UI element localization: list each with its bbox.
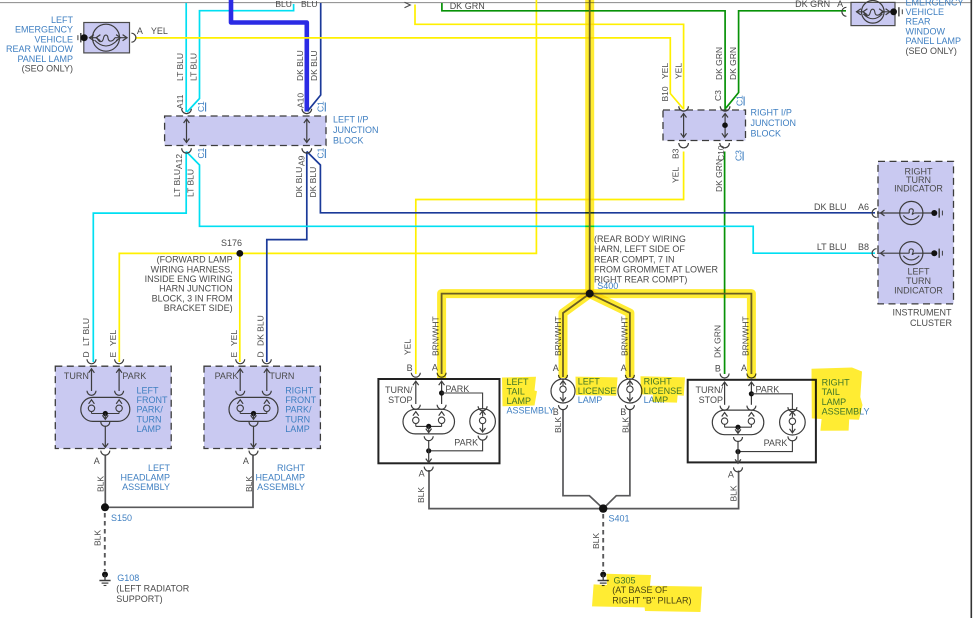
lamp symbol E2 right emergency vehicle rear window panel lamp [862,1,885,24]
highlighter blob over LEFT LICENSE text [576,377,618,396]
right I/P junction block pin B3/C3 connector [679,143,689,148]
svg-text:SUPPORT): SUPPORT) [116,594,162,604]
wire LT BLU from left I/P A12 to instrument cluster B8 [186,152,875,254]
left front park/turn lamp bulb (stadium) [81,397,130,421]
page top border [0,2,972,4]
ground G108 [102,572,108,578]
connector pin A of left tail lamp [424,467,433,472]
svg-text:C10: C10 [716,145,726,161]
wire BLK right license lamp B to S401 [603,409,630,509]
svg-text:LEFT: LEFT [51,15,74,25]
box: RIGHT TAIL LAMP ASSEMBLY [688,380,816,463]
highlighter band: S400 to left license lamp [563,294,590,378]
highlighter blob over RIGHT LICENSE text [641,376,686,402]
svg-text:BLK: BLK [93,530,103,546]
wire YEL from off-page arrow into right I/P B10 (straight drop) [415,5,684,110]
svg-text:(REAR BODY WIRING: (REAR BODY WIRING [594,234,686,244]
svg-text:DK GRN: DK GRN [450,1,485,11]
svg-text:BLK: BLK [95,476,105,492]
left I/P junction block pin A9/C1 connector [302,148,312,153]
svg-text:BRACKET SIDE): BRACKET SIDE) [164,303,233,313]
wire DK GRN from right I/P C10 to right tail lamp B [724,152,726,375]
svg-text:A: A [837,0,843,9]
svg-text:A: A [741,363,747,373]
ground G305 [600,572,606,578]
pigtail ground right of lamp E2 [890,8,897,15]
svg-text:YEL: YEL [229,330,239,346]
svg-text:DK BLU: DK BLU [308,167,318,198]
svg-text:BLK: BLK [728,485,738,501]
splice S400 [586,290,594,298]
connector pin A of left front park/turn lamp [101,451,110,456]
svg-text:REAR WINDOW: REAR WINDOW [6,44,74,54]
svg-text:BLK: BLK [553,417,563,433]
svg-text:LEFT I/P: LEFT I/P [333,115,368,125]
left I/P junction block pin A12/C1 connector [182,148,192,153]
svg-text:LT BLU: LT BLU [172,169,182,197]
connector pins of left front park/turn lamp [87,359,96,364]
svg-text:LAMP: LAMP [285,424,310,434]
svg-text:E: E [108,352,118,358]
connector pin B of left license lamp [559,405,568,410]
indicator lamp RIGHT TURN INDICATOR [872,209,876,218]
svg-text:DK BLU: DK BLU [294,167,304,198]
svg-text:PARK: PARK [755,384,779,394]
highlighter blob over RIGHT TAIL LAMP ASSEMBLY text [812,368,863,431]
svg-text:YEL: YEL [108,330,118,346]
svg-text:A: A [419,469,425,479]
svg-text:DK BLU: DK BLU [309,50,319,81]
junction dot inside right I/P block on C3 path [722,122,728,128]
lamp box: (RIGHT) EMERGENCY VEHICLE REAR WINDOW PANEL LAMP [851,2,895,25]
svg-text:A: A [137,26,143,36]
svg-text:YEL: YEL [673,63,683,79]
svg-text:S401: S401 [609,514,630,524]
svg-text:HEADLAMP: HEADLAMP [255,472,305,482]
svg-text:BLOCK, 3 IN FROM: BLOCK, 3 IN FROM [152,293,233,303]
wire DK BLU thin from top into A10 [307,3,320,111]
svg-text:B: B [715,363,721,373]
svg-text:C3: C3 [733,150,743,161]
svg-text:PARK/: PARK/ [285,405,312,415]
park return line and junction dot of left tail lamp [429,440,483,451]
wire LT BLU from left I/P A12 to left front lamp D [93,152,186,363]
right I/P junction block internal path C3-C10 (double arrow) [724,115,726,137]
junction dot and PARK branch inside left tail lamp [439,390,444,395]
svg-text:C1: C1 [316,147,326,158]
svg-text:LT BLU: LT BLU [189,53,199,81]
svg-text:BLK: BLK [621,417,631,433]
wire DK BLU from left I/P A9 to instrument cluster A6 [307,152,875,213]
lamp left license lamp [559,375,568,380]
wire DK BLU from left I/P A9 to right front lamp D [267,152,307,363]
svg-text:C1: C1 [196,101,206,112]
wire BRN/WHT core from top to S400 [589,0,591,294]
svg-text:FROM GROMMET AT LOWER: FROM GROMMET AT LOWER [594,264,719,274]
svg-text:PARK: PARK [122,371,146,381]
wire BLK dashed S150 to G108 [104,513,106,571]
svg-text:ASSEMBLY: ASSEMBLY [122,482,170,492]
park bulb of right tail lamp [780,409,806,435]
svg-text:FRONT: FRONT [285,395,316,405]
wire YEL from right I/P B3 to left tail lamp B [416,152,684,375]
svg-text:(FORWARD LAMP: (FORWARD LAMP [157,255,233,265]
svg-text:B8: B8 [858,242,869,252]
svg-text:LT BLU: LT BLU [81,318,91,346]
page right border [970,0,972,618]
svg-text:WINDOW: WINDOW [906,26,946,36]
highlighter blob over LEFT TAIL LAMP text [502,377,537,407]
svg-text:D: D [256,351,266,357]
box: LEFT FRONT PARK/TURN LAMP (LEFT HEADLAMP ASSEMBLY) [55,366,171,448]
svg-text:LT BLU: LT BLU [817,242,847,252]
wire BRN/WHT core S400 horizontal to tail lamp A pins [442,294,752,374]
left I/P junction block internal path A11-A12 (double arrow) [186,120,188,142]
svg-text:TURN: TURN [285,414,310,424]
left I/P junction block internal path A10-A9 (double arrow) [306,120,308,142]
svg-text:BLK: BLK [416,487,426,503]
wire BLK right tail lamp A to S401 [603,471,738,509]
connector pin A of right tail lamp [734,467,743,472]
svg-text:DK GRN: DK GRN [795,0,830,9]
svg-text:TURN: TURN [269,371,294,381]
svg-text:LAMP: LAMP [578,395,603,405]
svg-text:C1: C1 [734,95,744,106]
svg-text:YEL: YEL [151,26,168,36]
highlighter band: S400 to right license lamp [590,294,630,378]
connector pins B and A of left tail lamp [411,373,420,378]
svg-text:YEL: YEL [671,167,681,183]
wire BLK left tail lamp A to S401 [429,470,603,509]
wire BLK left front lamp A to S150 to right front lamp A [105,455,253,508]
splice S150 [101,503,109,511]
svg-text:A9: A9 [297,155,307,166]
svg-text:DK BLU: DK BLU [295,50,305,81]
svg-text:C1: C1 [196,147,206,158]
svg-text:D: D [81,351,91,357]
svg-text:(SEO ONLY): (SEO ONLY) [22,64,73,74]
box: INSTRUMENT CLUSTER [878,161,954,304]
svg-text:VEHICLE: VEHICLE [906,7,945,17]
left I/P junction block pin A11/C1 connector [182,109,192,114]
svg-text:B3: B3 [671,148,681,159]
wire BLK dashed S401 to G305 [602,514,604,571]
svg-text:DK GRN: DK GRN [714,159,724,192]
right I/P junction block internal path B10-B3 (double arrow) [683,115,685,137]
svg-text:A: A [94,456,100,466]
svg-text:REAR: REAR [906,17,932,27]
svg-text:TURN: TURN [137,414,162,424]
svg-text:(SEO ONLY): (SEO ONLY) [906,46,957,56]
svg-text:ASSEMBLY: ASSEMBLY [257,482,305,492]
turn/stop bulb (stadium) of left tail lamp [403,409,455,434]
wire YEL branch S176 down to right front lamp E [239,253,241,362]
svg-text:DK GRN: DK GRN [714,47,724,80]
svg-text:A: A [243,456,249,466]
junction block: RIGHT I/P JUNCTION BLOCK [663,110,746,141]
wire LT BLU from top into A11 (straight) [185,3,187,112]
left I/P junction block pin A10/C1 connector [302,109,312,114]
svg-text:A12: A12 [174,154,184,169]
svg-text:RIGHT: RIGHT [277,463,306,473]
connector pins B and A of right tail lamp [720,374,729,379]
right I/P junction block pin B10/C1 connector [679,106,689,111]
lamp box: LEFT EMERGENCY VEHICLE REAR WINDOW PANEL LAMP [84,23,130,53]
svg-text:B: B [620,407,626,417]
svg-text:TURN: TURN [64,371,89,381]
wire BLK left license lamp B to S401 [563,409,603,509]
svg-text:VEHICLE: VEHICLE [34,34,73,44]
svg-text:HEADLAMP: HEADLAMP [120,472,170,482]
svg-text:PARK: PARK [215,371,239,381]
junction block: LEFT I/P JUNCTION BLOCK [165,116,326,146]
svg-text:INDICATOR: INDICATOR [894,286,943,296]
lamp right license lamp [625,375,634,380]
svg-text:DK BLU: DK BLU [814,202,847,212]
svg-text:S150: S150 [111,513,132,523]
connector pin A of lamp E2 [842,7,846,16]
svg-text:REAR COMPT, 7 IN: REAR COMPT, 7 IN [594,254,675,264]
park bulb of left tail lamp [470,409,496,435]
right I/P junction block pin C10/C3 connector [720,143,730,148]
splice S176 [236,250,243,257]
svg-text:C1: C1 [316,101,326,112]
svg-text:LEFT: LEFT [137,385,160,395]
svg-text:BLU: BLU [301,0,318,9]
svg-text:YEL: YEL [403,339,413,355]
svg-text:A: A [728,469,734,479]
svg-text:PARK: PARK [454,437,478,447]
svg-text:JUNCTION: JUNCTION [751,118,797,128]
svg-text:B: B [553,407,559,417]
svg-text:A10: A10 [295,93,305,108]
svg-text:CLUSTER: CLUSTER [910,318,953,328]
svg-text:B: B [407,363,413,373]
off-page arrow for YEL wire [405,2,411,8]
svg-text:S176: S176 [221,238,242,248]
highlighter blob over G305 note [592,574,702,612]
connector pins of right front park/turn lamp [236,359,245,364]
svg-text:STOP: STOP [388,395,412,405]
svg-text:HARN, LEFT SIDE OF: HARN, LEFT SIDE OF [594,244,685,254]
svg-text:C3: C3 [713,90,723,101]
connector pin B of right license lamp [625,405,634,410]
svg-text:INDICATOR: INDICATOR [894,183,943,193]
svg-text:A6: A6 [858,202,869,212]
svg-text:INSIDE ENG WIRING: INSIDE ENG WIRING [145,274,233,284]
svg-text:LT BLU: LT BLU [186,169,196,197]
right front park/turn lamp internal circuit [239,370,241,392]
svg-text:DK BLU: DK BLU [256,315,266,346]
wire BRN/WHT core S400 to right license lamp A [590,294,630,377]
lamp symbol E1 left emergency vehicle rear window panel lamp [93,24,120,51]
svg-text:PANEL LAMP: PANEL LAMP [17,54,73,64]
box: LEFT TAIL LAMP ASSEMBLY [378,379,499,463]
highlighter band: S400 horizontal run and tail lamp drops [442,294,752,379]
wire BRN/WHT core S400 to left license lamp A [563,294,590,377]
svg-text:INSTRUMENT: INSTRUMENT [893,307,952,317]
svg-text:RIGHT I/P: RIGHT I/P [751,108,792,118]
box: RIGHT FRONT PARK/TURN LAMP (RIGHT HEADLAMP ASSEMBLY) [204,366,320,448]
svg-text:G108: G108 [117,573,139,583]
connector pin A of lamp E1 [131,33,136,42]
right I/P junction block pin C3/C1 connector [720,106,730,111]
svg-text:A: A [553,363,559,373]
right front park/turn lamp bulb (stadium) [229,397,278,421]
wire YEL from left emergency lamp into right I/P B10 (diagonal) [135,38,683,109]
left front park/turn lamp internal circuit [91,370,93,392]
left tail lamp internal circuit [415,382,417,404]
svg-text:PARK: PARK [445,384,469,394]
wire DK BLU thick from top into A10 [231,0,307,112]
svg-text:BLOCK: BLOCK [751,129,782,139]
svg-text:PARK: PARK [764,438,788,448]
svg-text:E: E [229,352,239,358]
svg-text:BLU: BLU [275,0,292,9]
svg-text:A: A [432,363,438,373]
svg-text:FRONT: FRONT [137,395,168,405]
pigtail ground left of lamp E1 [77,35,79,40]
svg-text:DK GRN: DK GRN [728,47,738,80]
junction dot and PARK branch inside right tail lamp [749,391,754,396]
svg-text:A11: A11 [175,94,185,109]
svg-text:JUNCTION: JUNCTION [333,125,379,135]
svg-text:TURN/: TURN/ [696,385,724,395]
svg-text:BLOCK: BLOCK [333,136,364,146]
svg-text:WIRING HARNESS,: WIRING HARNESS, [151,264,233,274]
wire DK GRN from top into right I/P C3 (straight) [442,3,725,110]
svg-text:TURN: TURN [906,276,931,286]
svg-text:B10: B10 [660,86,670,101]
splice S401 [599,504,607,512]
highlighter band: BRN/WHT wire from top to S400 [585,0,594,294]
park return line and junction dot of right tail lamp [738,440,792,451]
svg-text:BLK: BLK [244,476,254,492]
svg-text:EMERGENCY: EMERGENCY [15,25,73,35]
svg-text:DK GRN: DK GRN [712,325,722,358]
wire LT BLU from top (bend at x293.6) into A11 [187,4,294,112]
indicator lamp LEFT TURN INDICATOR [872,249,877,258]
svg-text:RIGHT: RIGHT [285,385,314,395]
svg-text:LT BLU: LT BLU [175,53,185,81]
svg-text:PARK/: PARK/ [137,405,164,415]
svg-text:LEFT: LEFT [148,463,171,473]
wire DK GRN from right emergency lamp into right I/P C3 (diagonal) [726,11,846,108]
svg-text:TURN/: TURN/ [385,385,413,395]
svg-text:STOP: STOP [699,395,723,405]
svg-text:ASSEMBLY: ASSEMBLY [507,406,555,416]
svg-text:YEL: YEL [660,63,670,79]
right tail lamp internal circuit [724,383,726,405]
wire YEL from top through S176 to left front lamp E and right front lamp E [119,0,536,362]
svg-text:BLK: BLK [591,533,601,549]
connector pin A of right front park/turn lamp [249,451,258,456]
svg-text:PANEL LAMP: PANEL LAMP [906,36,962,46]
turn/stop bulb (stadium) of right tail lamp [712,410,764,435]
svg-text:LAMP: LAMP [137,424,162,434]
svg-text:(LEFT RADIATOR: (LEFT RADIATOR [116,583,190,593]
svg-text:LEFT: LEFT [907,267,930,277]
svg-text:HARN JUNCTION: HARN JUNCTION [159,284,233,294]
